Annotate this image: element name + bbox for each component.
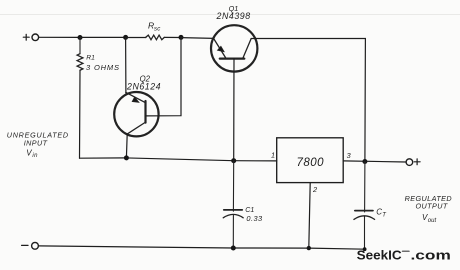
svg-text:INPUT: INPUT <box>24 139 48 148</box>
label UNREGULATED INPUT Vin <box>7 131 69 160</box>
regulator U1 7800 <box>277 138 344 183</box>
resistor Rsc <box>146 35 165 40</box>
svg-text:2N6124: 2N6124 <box>126 82 161 92</box>
label Rsc <box>148 21 161 33</box>
label REGULATED OUTPUT Vout <box>405 194 452 224</box>
terminal - input <box>32 242 39 249</box>
wire output (pin3 to node) <box>343 161 406 162</box>
wire pin2 to ground line <box>309 183 310 248</box>
svg-text:out: out <box>428 218 437 224</box>
svg-text:1: 1 <box>271 151 275 160</box>
svg-text:sc: sc <box>154 26 161 33</box>
svg-text:in: in <box>32 153 38 159</box>
label + (output) <box>414 159 420 165</box>
svg-text:3: 3 <box>347 151 351 160</box>
svg-text:R1: R1 <box>86 54 95 61</box>
wire left vertical (R1 to input line) <box>79 70 82 158</box>
wire Q2 base lead <box>146 38 182 116</box>
wire top B <box>80 36 126 38</box>
node top-R1 <box>78 35 83 40</box>
wire Q1 emitter lead <box>181 37 214 40</box>
node top-Q2emitter <box>123 35 128 40</box>
faint scan line <box>0 14 460 16</box>
svg-text:SeekIC: SeekIC <box>357 248 402 263</box>
svg-text:V: V <box>26 149 32 158</box>
node bottom-CT <box>363 247 367 251</box>
transistor Q2 <box>114 92 158 136</box>
label - (input) <box>22 244 28 246</box>
svg-text:.com: .com <box>411 249 451 263</box>
node bottom-C1 <box>231 246 236 251</box>
svg-text:0.33: 0.33 <box>246 214 263 223</box>
capacitor CT <box>354 162 375 250</box>
wire bottom <box>39 246 366 249</box>
svg-text:OUTPUT: OUTPUT <box>415 202 447 211</box>
label CT <box>376 207 387 218</box>
node top-Q2base-Q1emitter <box>179 35 184 40</box>
wire top C <box>126 37 146 39</box>
wire Q1 base lead <box>233 59 235 161</box>
svg-text:7800: 7800 <box>297 157 325 169</box>
svg-text:3 OHMS: 3 OHMS <box>86 63 120 72</box>
watermark SeekIC.com <box>357 248 451 263</box>
svg-text:2N4398: 2N4398 <box>216 11 251 21</box>
svg-text:2: 2 <box>312 185 317 194</box>
terminal + input <box>32 34 39 41</box>
wire top A <box>39 36 80 38</box>
wire Q2 emitter lead <box>125 38 127 94</box>
wire input line <box>80 158 277 161</box>
wire Q2 collector lead <box>125 134 128 158</box>
node Q2collector-inputline <box>124 155 129 160</box>
label + (input) <box>23 34 29 40</box>
transistor Q1 <box>211 25 257 71</box>
node bottom-pin2 <box>307 246 311 250</box>
wire Q1 collector to right <box>251 39 365 162</box>
node output <box>362 159 367 164</box>
capacitor C1 <box>223 161 243 248</box>
node Q1base-C1-inputline <box>231 158 236 163</box>
terminal + output <box>406 159 413 166</box>
wire top D <box>164 36 181 38</box>
resistor R1 <box>77 38 83 71</box>
